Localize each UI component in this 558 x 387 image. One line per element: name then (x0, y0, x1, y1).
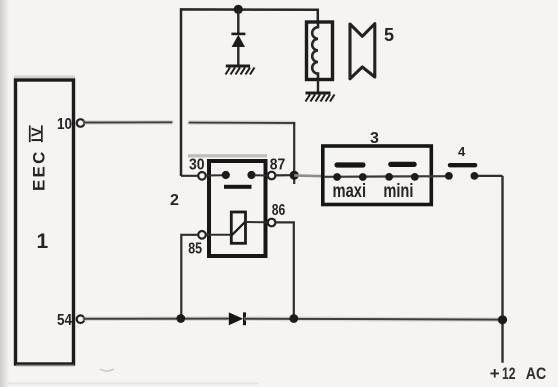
label maxi (333, 179, 367, 201)
node J1 (85 junction) (176, 314, 185, 323)
diode D1 clamp to ground (231, 9, 245, 65)
svg-text:10: 10 (57, 116, 72, 133)
ECU box 1 (EEC IV) (14, 76, 75, 367)
fuse box 3 (323, 146, 432, 205)
svg-text:85: 85 (188, 240, 202, 257)
svg-text:54: 54 (57, 312, 72, 329)
fuse element mini (388, 162, 417, 167)
svg-text:mini: mini (383, 179, 413, 201)
pin 85 (198, 231, 206, 239)
relay contact: wire 30 to contacts (206, 174, 223, 176)
scan smudge bottom (100, 369, 114, 371)
fuse 4 (445, 163, 478, 180)
wire pin 10 to node A (with crossing gap) (85, 122, 295, 172)
wire 54 bus left segment (85, 316, 229, 321)
svg-text:+: + (490, 364, 500, 383)
svg-text:maxi: maxi (333, 179, 367, 201)
pin 10 (57, 116, 84, 133)
pin 86 (268, 219, 276, 227)
horn coil component (5, left part) (307, 22, 333, 92)
node J2 (86 junction) (289, 314, 298, 323)
node J3 (+12 junction) (498, 315, 507, 324)
wire pin 87 to node A (276, 174, 291, 176)
node B (diode tap on top wire) (234, 5, 243, 14)
fuse bus wire (324, 175, 448, 178)
wire +12 vertical drop (501, 176, 503, 363)
svg-text:4: 4 (458, 144, 466, 159)
label +12 AC (490, 364, 547, 383)
svg-text:2: 2 (170, 192, 179, 209)
wire coil to 86 (inside) (246, 221, 269, 223)
wire 54 bus right segment (246, 316, 502, 321)
fuse dots (333, 173, 341, 181)
stub below node A (293, 175, 295, 184)
svg-text:1: 1 (37, 230, 49, 253)
ground G2 (306, 93, 335, 102)
wire node A to fuse box (294, 174, 323, 177)
pin 30 (198, 172, 206, 180)
svg-text:86: 86 (272, 202, 286, 219)
pin 87 (268, 172, 276, 180)
svg-text:5: 5 (384, 25, 394, 45)
svg-text:3: 3 (370, 130, 379, 147)
relay contact bar (224, 185, 252, 189)
wire fuse 4 to +12 drop (478, 175, 503, 177)
relay coil (231, 212, 245, 243)
wire contacts to 87 (254, 174, 268, 176)
fuse element maxi (335, 162, 366, 167)
wire stub from vertical to pin 30 (181, 175, 199, 177)
node A (87 junction) (290, 171, 299, 180)
diode D2 in series (229, 312, 246, 325)
relay contact dots (222, 171, 230, 179)
wire pin 86 to node J2 (276, 222, 294, 318)
wire 85 to coil (inside) (206, 234, 232, 236)
relay K box 2 (188, 154, 267, 256)
speaker membrane (5, right part) (350, 24, 375, 79)
label EEC IV (28, 125, 49, 191)
ground G1 (226, 66, 255, 75)
svg-text:EEC: EEC (30, 149, 49, 191)
wire pin 85 to node J1 (181, 235, 198, 318)
scan edge artifact left strip (0, 0, 9, 387)
wire top supply from vertical to horn (181, 9, 318, 176)
label mini (383, 179, 413, 201)
svg-text:AC: AC (526, 364, 547, 383)
pin 54 (77, 315, 85, 323)
svg-text:12: 12 (502, 364, 516, 383)
